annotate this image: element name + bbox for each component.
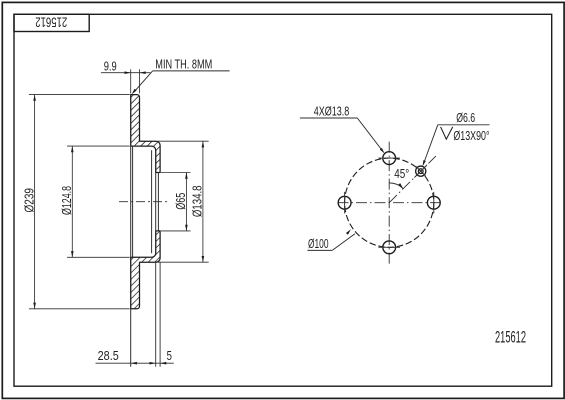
svg-text:Ø65: Ø65 bbox=[173, 193, 188, 210]
svg-text:Ø239: Ø239 bbox=[21, 188, 36, 212]
svg-text:Ø6.6: Ø6.6 bbox=[456, 111, 475, 125]
svg-text:MIN TH. 8MM: MIN TH. 8MM bbox=[155, 58, 212, 72]
svg-text:5: 5 bbox=[167, 349, 172, 363]
svg-text:Ø124.8: Ø124.8 bbox=[59, 186, 74, 215]
svg-text:215612: 215612 bbox=[495, 328, 526, 347]
svg-text:28.5: 28.5 bbox=[98, 349, 119, 363]
svg-text:Ø100: Ø100 bbox=[308, 237, 329, 251]
svg-text:45°: 45° bbox=[394, 167, 409, 181]
svg-text:9.9: 9.9 bbox=[104, 59, 117, 73]
svg-text:Ø13X90°: Ø13X90° bbox=[453, 129, 489, 143]
svg-text:215612: 215612 bbox=[35, 14, 67, 29]
svg-text:Ø134.8: Ø134.8 bbox=[190, 185, 205, 217]
svg-text:4XØ13.8: 4XØ13.8 bbox=[314, 105, 350, 119]
